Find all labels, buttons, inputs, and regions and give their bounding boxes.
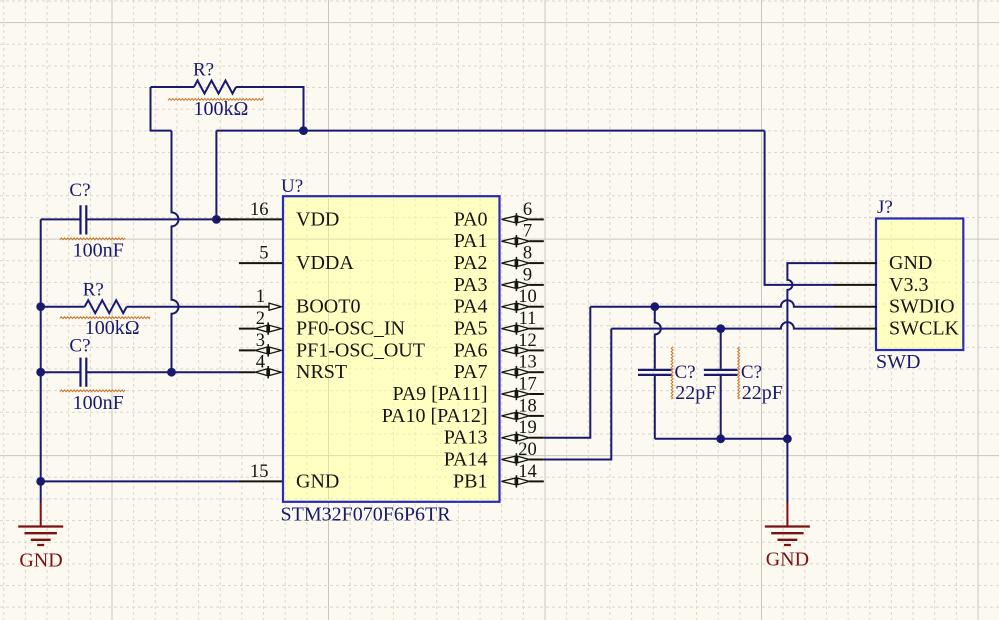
svg-text:4: 4 xyxy=(256,353,265,373)
svg-text:19: 19 xyxy=(518,418,537,438)
node: junction VDD pin xyxy=(212,215,221,224)
svg-text:11: 11 xyxy=(519,309,537,329)
pin 19 PA13 xyxy=(444,418,544,449)
svg-text:100kΩ: 100kΩ xyxy=(85,317,140,339)
svg-text:NRST: NRST xyxy=(296,361,347,383)
ground symbol GND right xyxy=(765,503,810,571)
svg-text:PA2: PA2 xyxy=(454,252,488,274)
svg-text:2: 2 xyxy=(256,309,265,329)
svg-text:R?: R? xyxy=(83,279,104,300)
svg-text:PA13: PA13 xyxy=(444,427,488,449)
pin 20 PA14 xyxy=(444,440,544,471)
svg-text:22pF: 22pF xyxy=(675,382,716,404)
svg-text:PA7: PA7 xyxy=(454,361,488,383)
svg-text:6: 6 xyxy=(523,200,532,220)
svg-text:GND: GND xyxy=(889,252,932,274)
pin 7 PA1 xyxy=(454,222,544,253)
value 100nF C1 with squiggle xyxy=(60,238,125,262)
svg-text:PF1-OSC_OUT: PF1-OSC_OUT xyxy=(296,339,425,361)
wire: C3 bottom lead xyxy=(654,376,656,439)
value 100k R2 with squiggle xyxy=(60,317,150,339)
node: junction left rail / GND row xyxy=(36,477,45,486)
svg-text:7: 7 xyxy=(523,222,532,242)
wire: R1 left lead and top loop xyxy=(151,86,195,88)
svg-text:10: 10 xyxy=(518,287,537,307)
wire: PA13 to SWDIO net xyxy=(544,307,591,438)
svg-text:STM32F070F6P6TR: STM32F070F6P6TR xyxy=(281,504,452,526)
node: junction gnd rail / gnd vertical xyxy=(783,434,792,443)
svg-text:8: 8 xyxy=(523,244,532,264)
svg-text:VDD: VDD xyxy=(296,208,339,230)
wire: gnd bottom rail xyxy=(655,438,788,440)
wire: GND pin 15 row xyxy=(41,480,239,482)
svg-text:17: 17 xyxy=(518,375,537,395)
pin 11 PA5 xyxy=(454,309,544,340)
svg-text:PA5: PA5 xyxy=(454,318,488,340)
svg-text:PA3: PA3 xyxy=(454,274,488,296)
designator C? (C3) with squiggle xyxy=(671,347,695,399)
pin 14 PB1 xyxy=(453,462,544,493)
node: junction NRST / pullup vertical xyxy=(167,368,176,377)
wire: C4 top lead xyxy=(720,329,722,369)
wire: BOOT0 row with R2 xyxy=(41,306,85,308)
node: junction R1/VDD rail xyxy=(299,126,308,135)
svg-text:100nF: 100nF xyxy=(73,392,124,414)
pin 4 NRST xyxy=(239,353,347,384)
capacitor C1 plates xyxy=(81,205,87,234)
svg-text:PF0-OSC_IN: PF0-OSC_IN xyxy=(296,318,405,340)
svg-text:GND: GND xyxy=(766,549,809,571)
wire: R2 to BOOT0 pin xyxy=(127,306,239,308)
svg-text:PA6: PA6 xyxy=(454,339,488,361)
node: junction left rail / NRST xyxy=(36,368,45,377)
op-amp U1 IC body STM32 xyxy=(283,196,500,502)
svg-text:100kΩ: 100kΩ xyxy=(194,98,249,120)
svg-text:C?: C? xyxy=(69,336,90,357)
svg-text:3: 3 xyxy=(256,331,265,351)
svg-text:V3.3: V3.3 xyxy=(889,274,928,296)
pin V3.3 of J1 xyxy=(834,274,928,296)
node: junction SWCLK / C4 xyxy=(716,324,725,333)
capacitor C2 plates xyxy=(81,358,87,387)
pin 9 PA3 xyxy=(454,265,544,296)
svg-text:16: 16 xyxy=(250,200,269,220)
wire: C4 bottom lead xyxy=(720,376,722,439)
node: junction left rail / R2 xyxy=(36,302,45,311)
connector J1 SWD body xyxy=(876,219,963,351)
pin 1 BOOT0 xyxy=(239,287,361,318)
node: junction SWDIO / C3 xyxy=(650,302,659,311)
wire: gnd vertical below rail xyxy=(786,439,788,503)
ground symbol GND left xyxy=(18,503,63,572)
svg-text:C?: C? xyxy=(69,180,90,201)
resistor R2 xyxy=(85,300,127,313)
capacitor C4 plates xyxy=(704,370,738,375)
svg-text:15: 15 xyxy=(250,462,269,482)
pin 13 PA7 xyxy=(454,353,544,384)
wire: left rail vertical xyxy=(40,219,42,502)
svg-text:U?: U? xyxy=(281,176,303,197)
svg-text:18: 18 xyxy=(518,396,537,416)
wire: PA14 to SWCLK net xyxy=(544,329,612,460)
wire: SWD GND pin down to gnd rail with hop over V3.3 xyxy=(787,263,834,439)
svg-text:5: 5 xyxy=(259,244,268,264)
pin 16 VDD xyxy=(216,200,339,231)
resistor R1 xyxy=(194,81,236,94)
svg-text:PA14: PA14 xyxy=(444,449,488,471)
pin 18 PA10 [PA12] xyxy=(382,396,544,427)
svg-text:PB1: PB1 xyxy=(453,470,487,492)
svg-text:VDDA: VDDA xyxy=(296,252,354,274)
wire: VDD row from left rail through C1 xyxy=(41,218,239,220)
svg-text:12: 12 xyxy=(518,331,537,351)
svg-text:100nF: 100nF xyxy=(73,240,124,262)
svg-text:14: 14 xyxy=(518,462,537,482)
svg-text:BOOT0: BOOT0 xyxy=(296,296,360,318)
wire: C3 top lead with hop over SWCLK xyxy=(655,307,661,369)
pin 2 PF0-OSC_IN xyxy=(239,309,405,340)
pin 12 PA6 xyxy=(454,331,544,362)
pin SWCLK of J1 xyxy=(834,318,960,340)
svg-text:PA10 [PA12]: PA10 [PA12] xyxy=(382,405,488,427)
svg-text:C?: C? xyxy=(675,362,696,383)
svg-text:PA0: PA0 xyxy=(454,208,488,230)
svg-text:1: 1 xyxy=(256,287,265,307)
pin 8 PA2 xyxy=(454,244,544,275)
wire: vertical from R1 to NRST with hops xyxy=(172,131,179,373)
svg-text:GND: GND xyxy=(296,470,339,492)
svg-text:SWDIO: SWDIO xyxy=(889,296,955,318)
svg-text:PA9 [PA11]: PA9 [PA11] xyxy=(392,383,487,405)
wire: SWDIO horizontal with hop xyxy=(590,300,834,306)
pin GND of J1 xyxy=(834,252,932,274)
svg-text:PA4: PA4 xyxy=(454,296,488,318)
wire: NRST row through C2 xyxy=(41,371,239,373)
wire: top rail down to V3.3 pin xyxy=(765,131,834,285)
node: junction C4 / gnd rail xyxy=(716,434,725,443)
svg-text:9: 9 xyxy=(523,265,532,285)
pin 10 PA4 xyxy=(454,287,544,318)
pin SWDIO of J1 xyxy=(834,296,955,318)
svg-text:GND: GND xyxy=(19,550,62,572)
svg-text:C?: C? xyxy=(741,362,762,383)
pin 17 PA9 [PA11] xyxy=(392,375,543,406)
svg-text:SWCLK: SWCLK xyxy=(889,318,960,340)
value 100nF C2 with squiggle xyxy=(60,390,125,414)
pin 5 VDDA xyxy=(239,244,354,275)
wire: SWCLK horizontal with hop xyxy=(611,322,834,329)
svg-text:22pF: 22pF xyxy=(742,382,783,404)
capacitor C3 plates xyxy=(638,370,672,375)
svg-text:R?: R? xyxy=(193,60,214,81)
svg-text:13: 13 xyxy=(518,353,537,373)
pin 15 GND xyxy=(239,462,339,493)
wire: R1 left down jog to vertical xyxy=(151,87,172,131)
value 100k R1 with squiggle xyxy=(168,98,263,120)
designator C? (C4) with squiggle xyxy=(738,347,762,399)
svg-text:SWD: SWD xyxy=(876,351,920,373)
wire: R1 right lead down to VDD net xyxy=(236,87,304,131)
pin 6 PA0 xyxy=(454,200,544,231)
svg-text:J?: J? xyxy=(877,197,893,218)
svg-text:20: 20 xyxy=(518,440,537,460)
svg-text:PA1: PA1 xyxy=(454,230,488,252)
wire: VDD top rail xyxy=(216,131,764,220)
pin 3 PF1-OSC_OUT xyxy=(239,331,425,362)
